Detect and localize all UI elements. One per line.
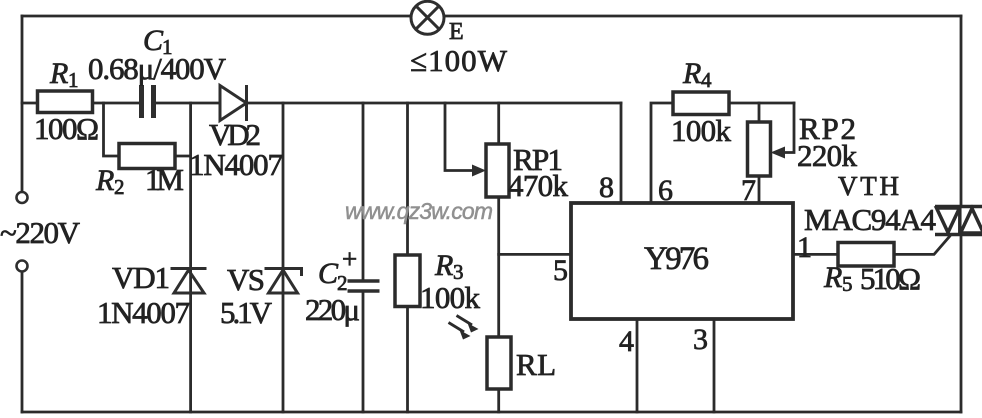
svg-text:1: 1	[68, 68, 79, 92]
svg-text:470k: 470k	[508, 168, 569, 203]
svg-text:5: 5	[553, 254, 568, 287]
svg-text:RL: RL	[516, 347, 556, 382]
svg-text:220μ: 220μ	[305, 292, 360, 327]
svg-text:4: 4	[619, 325, 634, 358]
svg-text:R: R	[95, 164, 114, 197]
svg-text:www.qz3w.com: www.qz3w.com	[345, 198, 493, 224]
svg-text:0.68μ/400V: 0.68μ/400V	[88, 51, 227, 86]
svg-text:+: +	[342, 244, 357, 274]
svg-text:5: 5	[842, 272, 853, 296]
svg-text:MAC94A4: MAC94A4	[804, 202, 937, 237]
svg-text:≤100W: ≤100W	[410, 43, 508, 78]
svg-text:220k: 220k	[797, 138, 858, 173]
svg-text:VTH: VTH	[838, 171, 899, 201]
svg-text:R: R	[823, 261, 842, 294]
svg-text:1N4007: 1N4007	[189, 147, 283, 182]
svg-text:E: E	[449, 19, 464, 45]
svg-text:4: 4	[701, 68, 712, 92]
svg-text:R: R	[434, 249, 453, 282]
svg-text:100k: 100k	[671, 113, 732, 148]
svg-text:2: 2	[114, 175, 125, 199]
svg-text:VD1: VD1	[112, 260, 170, 295]
svg-text:Y976: Y976	[644, 241, 709, 277]
svg-text:100k: 100k	[420, 280, 481, 315]
svg-text:5.1V: 5.1V	[220, 295, 273, 330]
svg-text:VS: VS	[227, 262, 265, 297]
svg-text:510Ω: 510Ω	[860, 261, 921, 296]
svg-text:R: R	[682, 57, 701, 90]
svg-text:7: 7	[741, 174, 756, 207]
svg-text:3: 3	[693, 323, 708, 356]
svg-text:6: 6	[658, 174, 673, 207]
svg-text:R: R	[49, 57, 68, 90]
svg-text:8: 8	[599, 171, 614, 204]
svg-text:100Ω: 100Ω	[34, 111, 99, 146]
svg-text:C: C	[318, 257, 339, 290]
svg-text:1M: 1M	[145, 162, 184, 197]
svg-text:~220V: ~220V	[0, 215, 81, 250]
svg-text:1N4007: 1N4007	[97, 295, 190, 330]
